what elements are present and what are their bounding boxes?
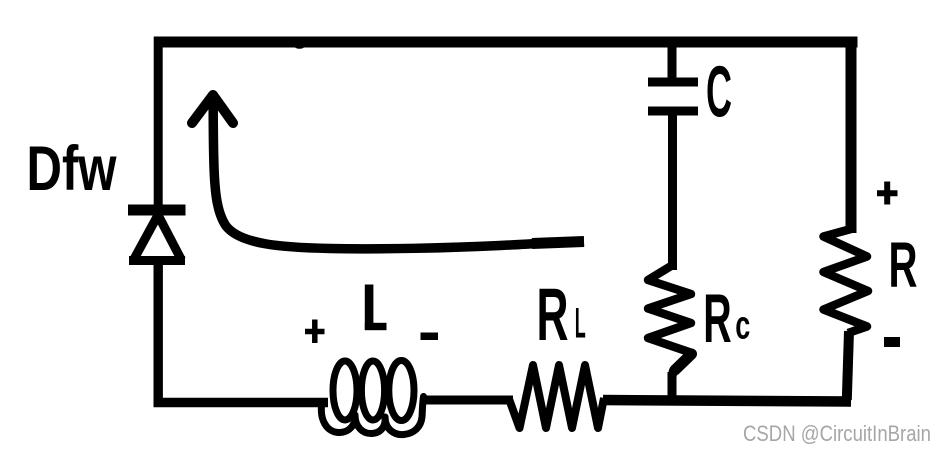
- wire left upper (top corner to diode): [154, 37, 163, 207]
- artifact nub on top wire: [294, 42, 305, 49]
- wire bottom segment between L and RL: [423, 396, 513, 405]
- svg-text:L: L: [575, 301, 586, 348]
- inductor L: [321, 361, 423, 435]
- svg-text:R: R: [537, 273, 569, 356]
- wire capacitor to Rc: [668, 111, 677, 270]
- label - (R): [884, 337, 900, 347]
- svg-text:c: c: [735, 304, 750, 348]
- capacitor C plates: [648, 82, 698, 111]
- svg-text:C: C: [706, 53, 732, 133]
- diode Dfw: [128, 210, 186, 261]
- svg-text:R: R: [889, 229, 918, 301]
- wire right upper (top corner to R): [846, 37, 857, 233]
- label L: [365, 285, 387, 331]
- svg-text:Dfw: Dfw: [27, 134, 118, 204]
- wire bottom right segment: [603, 400, 851, 402]
- resistor RL: [509, 365, 604, 428]
- svg-text:R: R: [703, 280, 731, 357]
- wire right lower (R to bottom corner): [847, 331, 849, 400]
- resistor Rc: [648, 266, 692, 376]
- wire Rc bottom stub: [668, 372, 677, 402]
- label - (inductor): [421, 333, 439, 341]
- capacitor stub from top wire: [668, 42, 677, 81]
- wire bottom left segment: [154, 398, 329, 408]
- resistor R: [824, 229, 869, 333]
- current arrowhead: [192, 95, 233, 123]
- wire top: [154, 37, 858, 48]
- current arrow curve: [213, 99, 584, 249]
- svg-text:CSDN @CircuitInBrain: CSDN @CircuitInBrain: [743, 421, 931, 446]
- label + (R): [877, 182, 898, 205]
- label + (inductor): [305, 320, 325, 344]
- wire left lower (diode to bottom corner): [153, 261, 162, 402]
